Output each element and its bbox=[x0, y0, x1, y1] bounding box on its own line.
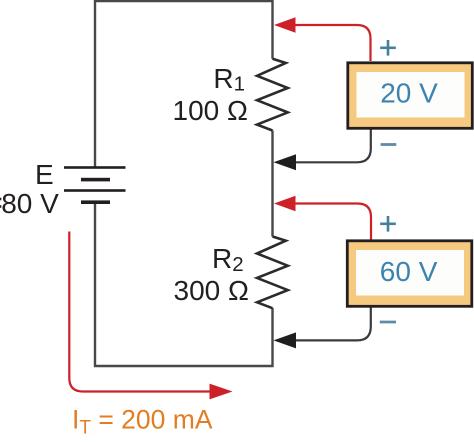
resistor R2 zigzag bbox=[257, 237, 288, 309]
battery E plate short upper bbox=[81, 178, 110, 182]
battery E plate short lower bbox=[81, 200, 110, 204]
svg-text:20 V: 20 V bbox=[380, 78, 438, 109]
red probe wire to voltmeter 20V plus bbox=[293, 25, 371, 61]
svg-text:100 Ω: 100 Ω bbox=[173, 95, 248, 126]
red arrowhead at R1 top node bbox=[274, 17, 296, 33]
plus label U1 bbox=[380, 40, 396, 56]
red current arrowhead bbox=[210, 384, 233, 400]
svg-text:E: E bbox=[35, 159, 54, 190]
wire right middle segment bbox=[271, 131, 273, 237]
red current path IT bbox=[69, 232, 213, 392]
svg-text:60 V: 60 V bbox=[380, 256, 438, 287]
svg-text:R1: R1 bbox=[213, 63, 245, 96]
battery E plate long bottom bbox=[64, 189, 126, 192]
red arrowhead at R2 top node bbox=[274, 196, 296, 212]
svg-text:80 V: 80 V bbox=[1, 188, 59, 219]
resistor R1 zigzag bbox=[257, 59, 288, 131]
plus label U2 bbox=[380, 216, 396, 232]
battery E plate long top bbox=[64, 166, 126, 169]
black arrowhead at R1 bottom node bbox=[274, 154, 297, 170]
svg-text:R2: R2 bbox=[212, 243, 244, 276]
black arrowhead at R2 bottom node bbox=[274, 332, 297, 348]
wire right lower + bottom + left lower bbox=[95, 203, 273, 366]
svg-text:300 Ω: 300 Ω bbox=[174, 275, 249, 306]
minus label U2 bbox=[380, 321, 396, 324]
voltmeter U1 box outer bbox=[348, 63, 473, 129]
voltmeter U2 inner white bbox=[356, 250, 464, 296]
wire left+top (main loop upper) bbox=[95, 1, 273, 167]
red probe wire to voltmeter 60V plus bbox=[293, 204, 371, 240]
svg-text:IT = 200 mA: IT = 200 mA bbox=[72, 404, 213, 438]
voltmeter U2 box outer bbox=[347, 241, 472, 306]
voltmeter U1 inner white bbox=[357, 72, 465, 118]
minus label U1 bbox=[381, 143, 397, 146]
equals-sign sliver cut by left edge bbox=[0, 198, 1, 201]
black probe wire from R2 bottom to voltmeter 60V minus bbox=[294, 308, 371, 341]
black probe wire from R1 bottom to voltmeter 20V minus bbox=[294, 130, 371, 163]
